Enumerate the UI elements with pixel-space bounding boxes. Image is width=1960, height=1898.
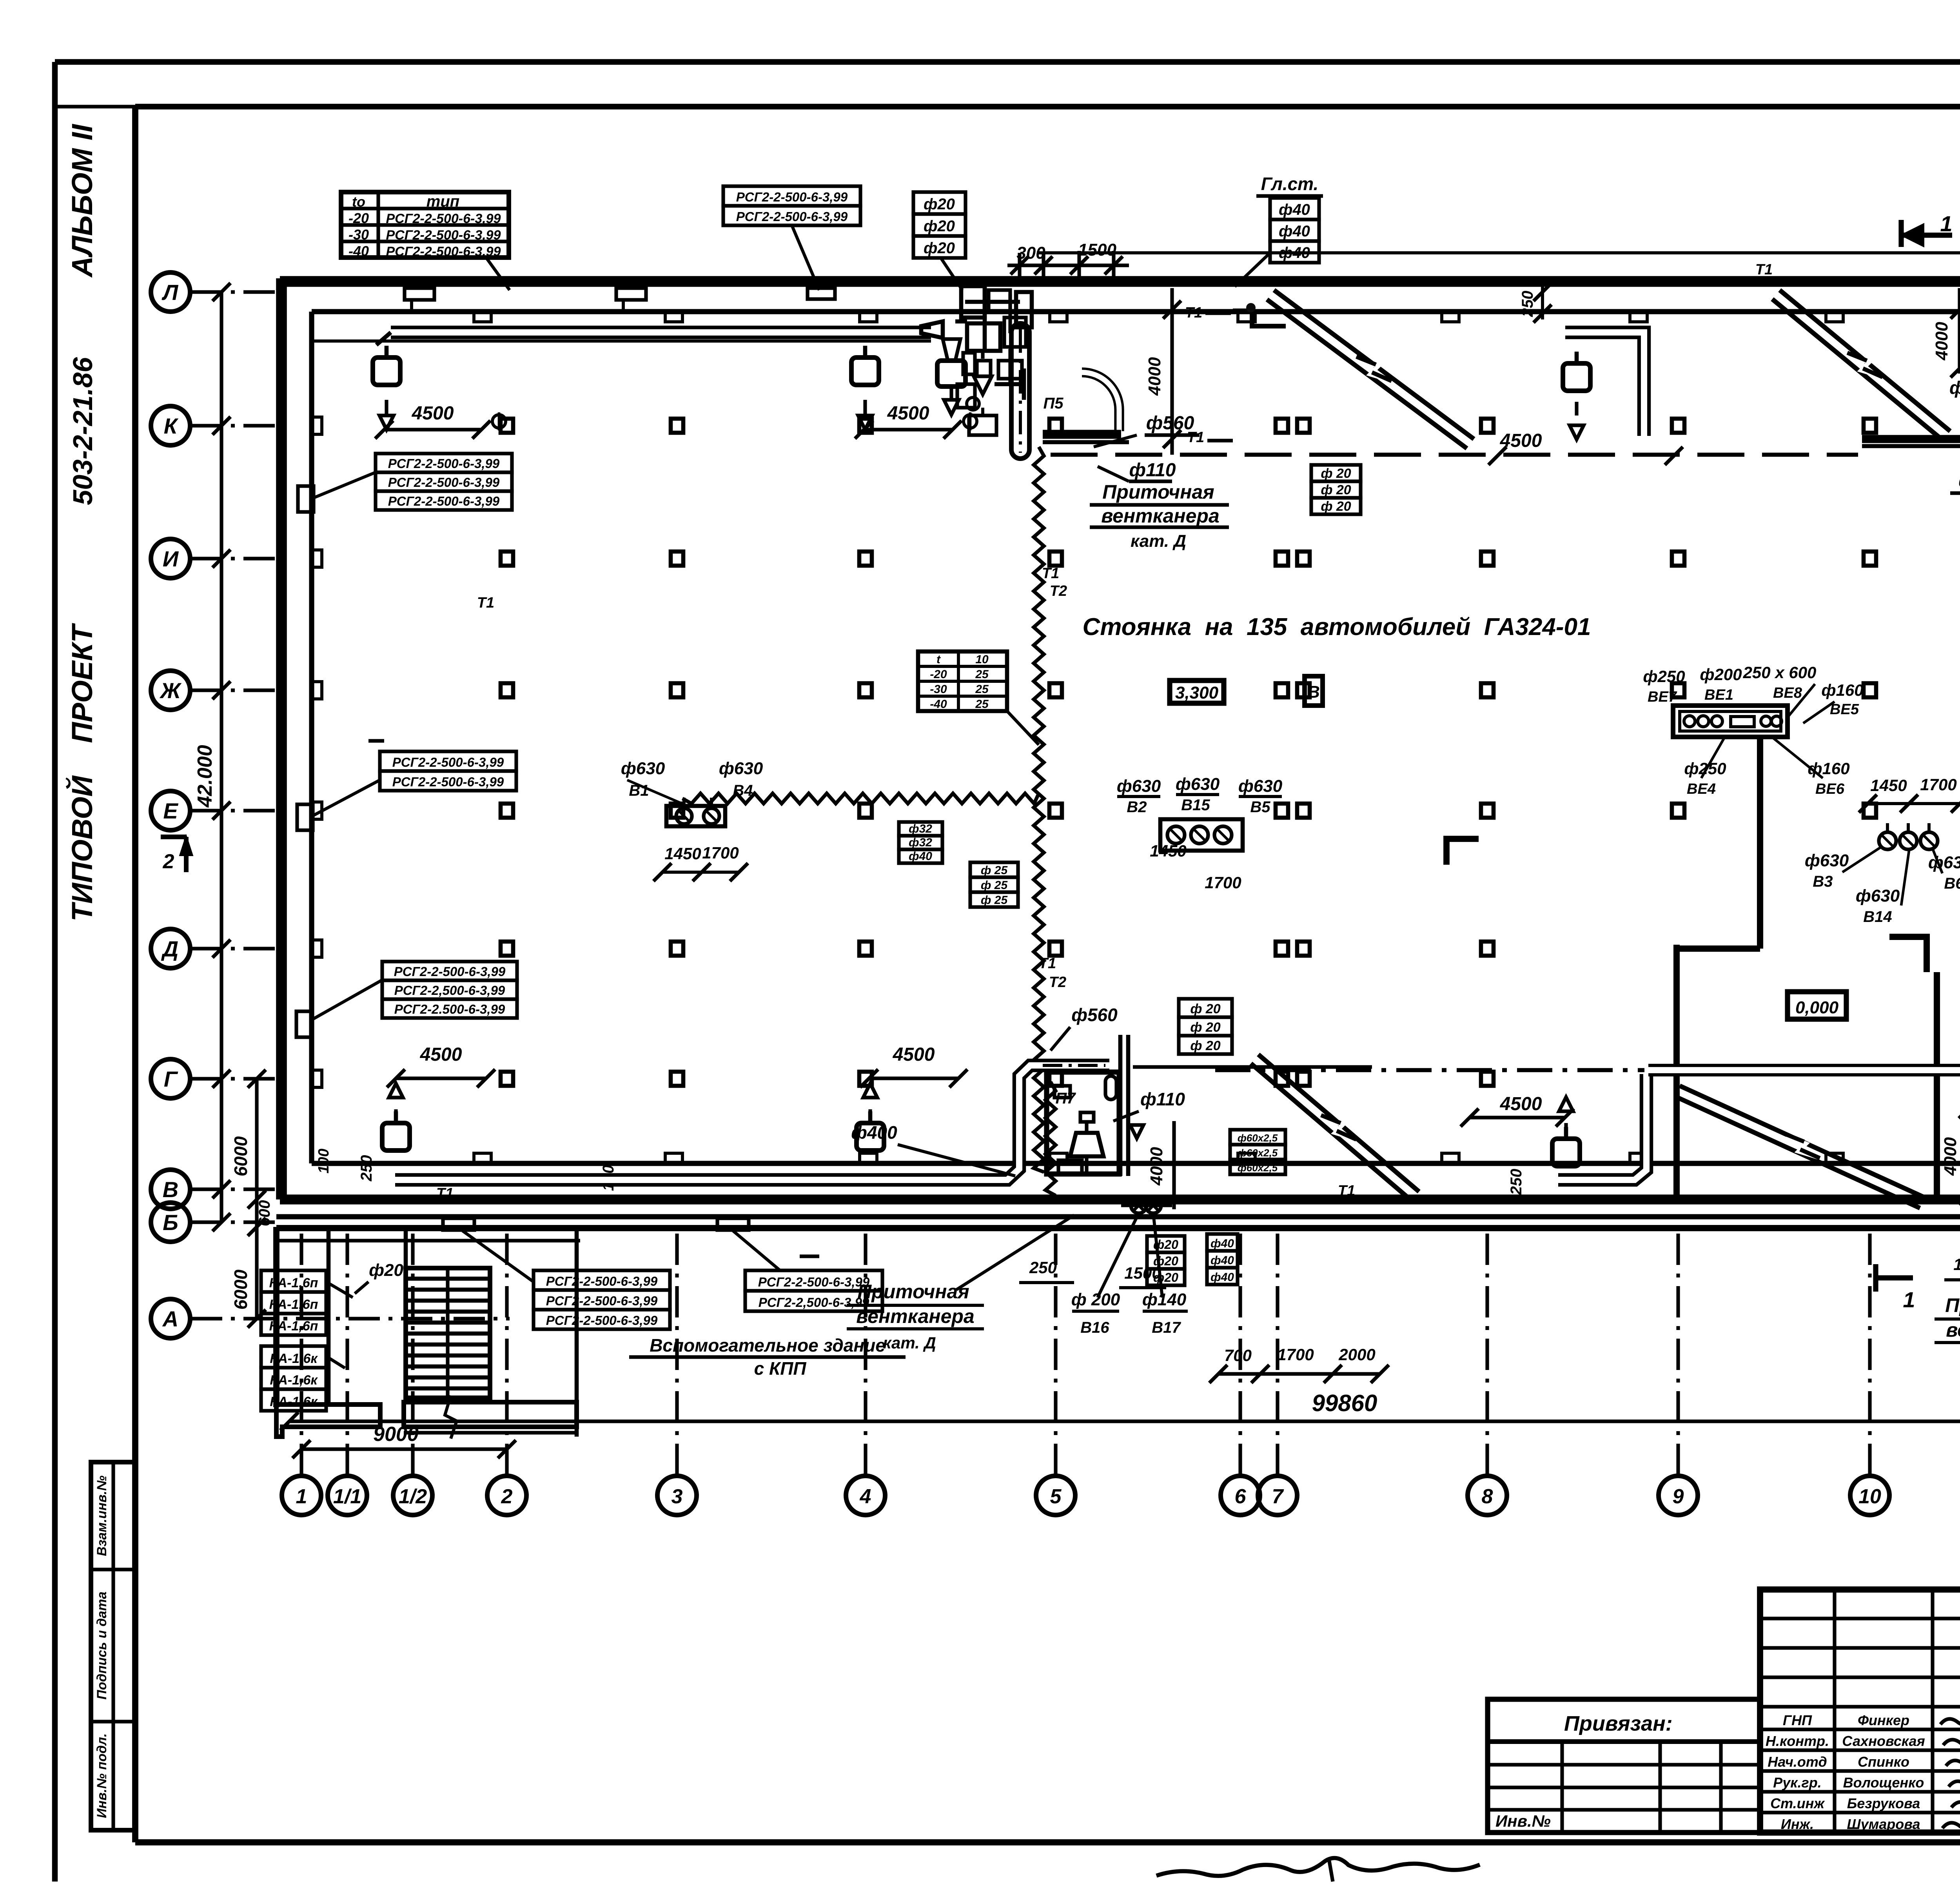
svg-text:РСГ2-2-500-6-3,99: РСГ2-2-500-6-3,99 <box>736 190 848 204</box>
svg-text:4500: 4500 <box>412 403 454 424</box>
svg-text:ГНП: ГНП <box>1783 1712 1812 1728</box>
svg-text:ПРОЕКТ: ПРОЕКТ <box>66 623 98 743</box>
svg-text:ф630: ф630 <box>719 759 763 778</box>
svg-text:3: 3 <box>671 1485 683 1508</box>
svg-text:-30: -30 <box>348 227 369 243</box>
svg-text:Т2: Т2 <box>1049 974 1066 991</box>
svg-text:РСГ2-2-500-6-3,99: РСГ2-2-500-6-3,99 <box>394 964 506 979</box>
svg-text:Гл.ст.: Гл.ст. <box>1261 174 1319 194</box>
svg-text:Инв.№: Инв.№ <box>1495 1812 1551 1830</box>
svg-text:Спинко: Спинко <box>1858 1754 1909 1770</box>
svg-text:Д: Д <box>161 936 178 961</box>
svg-text:ф20: ф20 <box>924 218 955 235</box>
svg-text:РСГ2-2-500-6-3,99: РСГ2-2-500-6-3,99 <box>546 1274 658 1288</box>
svg-text:4500: 4500 <box>1500 1094 1542 1114</box>
svg-text:-40: -40 <box>930 698 947 711</box>
svg-text:Привязан:: Привязан: <box>1564 1712 1673 1735</box>
svg-text:1: 1 <box>1940 211 1952 236</box>
svg-text:ф20: ф20 <box>924 240 955 257</box>
svg-text:ВЕ4: ВЕ4 <box>1687 781 1716 797</box>
svg-text:ф630: ф630 <box>1856 886 1900 905</box>
svg-text:1: 1 <box>296 1485 307 1508</box>
svg-text:Т2: Т2 <box>1050 583 1067 599</box>
svg-text:ф630: ф630 <box>1238 777 1283 796</box>
svg-text:-20: -20 <box>348 210 369 226</box>
svg-text:4500: 4500 <box>420 1044 462 1065</box>
svg-text:Рук.гр.: Рук.гр. <box>1773 1775 1822 1791</box>
svg-text:-30: -30 <box>930 683 947 696</box>
svg-text:1700: 1700 <box>1277 1345 1314 1364</box>
svg-text:В17: В17 <box>1152 1319 1181 1336</box>
svg-text:Т1: Т1 <box>1042 565 1059 582</box>
svg-text:ТИПОВОЙ: ТИПОВОЙ <box>65 775 98 921</box>
svg-text:ф630: ф630 <box>1805 851 1849 870</box>
svg-text:42.000: 42.000 <box>194 745 216 807</box>
svg-text:1/2: 1/2 <box>399 1485 427 1508</box>
svg-text:ф560: ф560 <box>1958 470 1960 491</box>
svg-text:РСГ2-2-500-6-3,99: РСГ2-2-500-6-3,99 <box>388 475 500 490</box>
svg-text:ф32: ф32 <box>909 836 932 849</box>
svg-text:Подпись и дата: Подпись и дата <box>94 1591 109 1700</box>
svg-text:ф60х2,5: ф60х2,5 <box>1238 1147 1278 1159</box>
svg-text:ф40: ф40 <box>1210 1271 1234 1284</box>
svg-text:10: 10 <box>1858 1485 1881 1508</box>
svg-text:РСГ2-2-500-6-3,99: РСГ2-2-500-6-3,99 <box>386 211 501 226</box>
svg-text:В4: В4 <box>733 782 753 799</box>
svg-text:2000: 2000 <box>1338 1345 1375 1364</box>
svg-text:ф630: ф630 <box>1117 777 1161 796</box>
svg-text:ВЕ1: ВЕ1 <box>1704 687 1733 703</box>
svg-text:РСГ2-2,500-6-3,99: РСГ2-2,500-6-3,99 <box>394 983 505 998</box>
svg-text:Вспомогательное здание: Вспомогательное здание <box>650 1335 886 1355</box>
svg-text:ф 200: ф 200 <box>1071 1290 1120 1309</box>
svg-text:1700: 1700 <box>702 844 739 862</box>
svg-text:ф200: ф200 <box>1700 665 1742 684</box>
svg-text:ф40: ф40 <box>1279 223 1310 240</box>
svg-text:РСГ2-2.500-6-3,99: РСГ2-2.500-6-3,99 <box>394 1002 505 1016</box>
svg-text:В3: В3 <box>1813 873 1833 890</box>
svg-text:ф110: ф110 <box>1129 460 1176 481</box>
svg-text:4000: 4000 <box>1145 357 1164 396</box>
svg-text:тип: тип <box>426 193 459 210</box>
svg-text:Н.контр.: Н.контр. <box>1766 1733 1829 1749</box>
svg-text:В15: В15 <box>1181 797 1210 814</box>
svg-text:В16: В16 <box>1080 1319 1109 1336</box>
svg-text:ф60х2,5: ф60х2,5 <box>1238 1132 1278 1144</box>
svg-text:3,300: 3,300 <box>1175 683 1219 702</box>
svg-text:Т1: Т1 <box>477 595 494 611</box>
svg-text:1700: 1700 <box>1920 775 1956 794</box>
svg-text:ф160: ф160 <box>1808 759 1849 778</box>
svg-text:10: 10 <box>975 653 989 666</box>
svg-text:8: 8 <box>1482 1485 1493 1508</box>
svg-text:Ст.инж: Ст.инж <box>1770 1795 1825 1811</box>
svg-text:2: 2 <box>501 1485 513 1508</box>
svg-text:4500: 4500 <box>887 403 929 424</box>
svg-text:250: 250 <box>1508 1169 1525 1196</box>
svg-text:ф20: ф20 <box>1153 1270 1178 1285</box>
svg-text:с КПП: с КПП <box>754 1358 807 1379</box>
svg-text:В: В <box>163 1177 178 1202</box>
svg-text:1450: 1450 <box>1870 776 1907 795</box>
svg-text:ВЕ7: ВЕ7 <box>1648 689 1677 705</box>
svg-text:tо: tо <box>352 194 365 210</box>
svg-text:КА-1,6п: КА-1,6п <box>269 1297 318 1312</box>
svg-text:0,000: 0,000 <box>1795 998 1839 1017</box>
svg-text:РСГ2-2-500-6-3,99: РСГ2-2-500-6-3,99 <box>758 1275 870 1289</box>
svg-text:ф560: ф560 <box>1071 1005 1118 1025</box>
svg-text:ф40: ф40 <box>1210 1254 1234 1267</box>
svg-text:РСГ2-2-500-6-3,99: РСГ2-2-500-6-3,99 <box>386 228 501 243</box>
svg-text:ф 20: ф 20 <box>1190 1002 1220 1016</box>
svg-text:Т1: Т1 <box>436 1185 454 1202</box>
svg-text:РСГ2-2-500-6-3,99: РСГ2-2-500-6-3,99 <box>392 755 504 769</box>
svg-text:1500: 1500 <box>1078 240 1116 259</box>
svg-text:вентканера: вентканера <box>856 1305 975 1327</box>
svg-text:В2: В2 <box>1127 798 1147 816</box>
svg-text:1450: 1450 <box>664 844 701 863</box>
svg-text:503-2-21.86: 503-2-21.86 <box>67 357 98 505</box>
svg-text:600: 600 <box>256 1200 273 1227</box>
svg-text:700: 700 <box>1224 1346 1252 1365</box>
svg-text:ф60х2,5: ф60х2,5 <box>1238 1162 1278 1174</box>
svg-text:ф560: ф560 <box>1146 413 1194 434</box>
svg-text:ф 20: ф 20 <box>1321 499 1351 514</box>
svg-text:В14: В14 <box>1863 908 1892 925</box>
svg-text:Приточная: Приточная <box>1945 1294 1960 1316</box>
svg-text:АЛЬБОМ II: АЛЬБОМ II <box>66 124 98 278</box>
svg-text:Т1: Т1 <box>1039 955 1056 972</box>
svg-text:ф 25: ф 25 <box>981 879 1008 892</box>
svg-text:РСГ2-2,500-6-3,99: РСГ2-2,500-6-3,99 <box>759 1295 869 1310</box>
svg-text:ВЕ8: ВЕ8 <box>1773 685 1802 701</box>
svg-text:ф20: ф20 <box>1153 1238 1178 1252</box>
svg-text:В6: В6 <box>1944 875 1960 892</box>
svg-text:Т1: Т1 <box>1755 261 1773 278</box>
svg-text:кат. Д: кат. Д <box>1131 532 1186 551</box>
svg-text:1: 1 <box>1903 1287 1915 1312</box>
svg-text:Сахновская: Сахновская <box>1842 1733 1925 1749</box>
svg-text:Инв.№ подл.: Инв.№ подл. <box>94 1733 109 1818</box>
svg-text:Приточная: Приточная <box>857 1281 969 1303</box>
svg-text:6000: 6000 <box>230 1269 251 1310</box>
svg-text:Т1: Т1 <box>1338 1183 1355 1199</box>
svg-text:КА-1,6к: КА-1,6к <box>270 1373 318 1388</box>
svg-text:25: 25 <box>975 668 989 681</box>
svg-text:Взам.инв.№: Взам.инв.№ <box>94 1475 109 1556</box>
svg-text:6: 6 <box>1235 1485 1247 1508</box>
svg-text:ф40: ф40 <box>1279 244 1310 261</box>
svg-text:ф 20: ф 20 <box>1190 1020 1220 1035</box>
svg-text:вентканера: вентканера <box>1101 505 1220 527</box>
svg-text:250: 250 <box>1029 1258 1057 1277</box>
svg-text:КА-1,6п: КА-1,6п <box>269 1319 318 1334</box>
svg-text:Приточная: Приточная <box>1102 481 1214 503</box>
svg-text:250 х 600: 250 х 600 <box>1743 663 1817 682</box>
svg-text:7: 7 <box>1272 1485 1284 1508</box>
svg-text:1500: 1500 <box>1953 1255 1960 1274</box>
svg-text:Шумарова: Шумарова <box>1847 1816 1920 1832</box>
svg-text:ф160: ф160 <box>1821 681 1863 699</box>
svg-text:1700: 1700 <box>1205 873 1241 892</box>
svg-text:ф20: ф20 <box>924 196 955 213</box>
svg-text:ф630: ф630 <box>1928 853 1960 872</box>
svg-text:ф400: ф400 <box>851 1122 897 1143</box>
svg-text:ф250: ф250 <box>1643 667 1685 686</box>
svg-text:ф110: ф110 <box>1140 1089 1185 1109</box>
svg-text:КА-1,6к: КА-1,6к <box>270 1351 318 1366</box>
svg-text:Финкер: Финкер <box>1858 1712 1909 1728</box>
svg-text:ф40: ф40 <box>1279 201 1310 218</box>
svg-text:А: А <box>162 1306 178 1331</box>
svg-text:РСГ2-2-500-6-3,99: РСГ2-2-500-6-3,99 <box>386 244 501 259</box>
svg-text:ф 20: ф 20 <box>1321 466 1351 481</box>
svg-text:4000: 4000 <box>1941 1137 1960 1176</box>
svg-text:ф 20: ф 20 <box>1190 1038 1220 1053</box>
svg-text:Безрукова: Безрукова <box>1847 1795 1920 1811</box>
svg-text:Г: Г <box>164 1067 178 1091</box>
svg-text:Стоянка на 135 автомобилей: Стоянка на 135 автомобилей ГА324-01 <box>1083 613 1591 641</box>
svg-text:К: К <box>164 414 179 438</box>
svg-text:Б: Б <box>163 1210 178 1235</box>
svg-text:250: 250 <box>358 1155 375 1182</box>
svg-text:25: 25 <box>975 698 989 711</box>
svg-text:ф20: ф20 <box>369 1261 403 1280</box>
svg-text:Волощенко: Волощенко <box>1843 1775 1924 1791</box>
svg-text:В5: В5 <box>1250 798 1270 816</box>
svg-text:25: 25 <box>975 683 989 696</box>
svg-text:РСГ2-2-500-6-3,99: РСГ2-2-500-6-3,99 <box>736 209 848 224</box>
svg-text:9: 9 <box>1673 1485 1684 1508</box>
svg-text:вентканера: вентканера <box>1946 1319 1960 1341</box>
svg-text:ВЕ6: ВЕ6 <box>1815 781 1845 797</box>
svg-text:РСГ2-2-500-6-3,99: РСГ2-2-500-6-3,99 <box>392 775 504 789</box>
svg-text:П5: П5 <box>1043 395 1063 412</box>
svg-text:ф250: ф250 <box>1684 759 1726 778</box>
svg-text:ф 25: ф 25 <box>981 894 1008 907</box>
svg-text:ф32: ф32 <box>909 822 932 835</box>
svg-text:ф110: ф110 <box>1949 377 1960 398</box>
svg-text:ф40: ф40 <box>909 850 932 863</box>
svg-text:Л: Л <box>162 280 179 305</box>
svg-text:ф630: ф630 <box>1176 775 1220 794</box>
svg-text:Е: Е <box>163 798 178 823</box>
svg-text:-20: -20 <box>930 668 947 681</box>
svg-text:2: 2 <box>163 850 174 873</box>
svg-text:99860: 99860 <box>1312 1390 1377 1416</box>
svg-text:1/1: 1/1 <box>333 1485 361 1508</box>
svg-text:4000: 4000 <box>1932 322 1951 361</box>
svg-text:КА-1,6к: КА-1,6к <box>270 1394 318 1409</box>
svg-text:РСГ2-2-500-6-3,99: РСГ2-2-500-6-3,99 <box>546 1313 658 1328</box>
svg-text:РСГ2-2-500-6-3,99: РСГ2-2-500-6-3,99 <box>388 494 500 508</box>
svg-text:И: И <box>163 546 179 571</box>
svg-text:4: 4 <box>860 1485 871 1508</box>
svg-text:РСГ2-2-500-6-3,99: РСГ2-2-500-6-3,99 <box>546 1294 658 1308</box>
svg-text:ф40: ф40 <box>1210 1237 1234 1250</box>
svg-text:кат. Д: кат. Д <box>883 1334 936 1352</box>
svg-text:ф 20: ф 20 <box>1321 483 1351 497</box>
svg-text:4500: 4500 <box>893 1044 935 1065</box>
svg-text:РСГ2-2-500-6-3,99: РСГ2-2-500-6-3,99 <box>388 456 500 471</box>
svg-text:4000: 4000 <box>1147 1147 1166 1186</box>
svg-text:ВЕ5: ВЕ5 <box>1830 701 1859 718</box>
svg-text:В: В <box>1307 682 1320 702</box>
svg-text:5: 5 <box>1050 1485 1062 1508</box>
svg-text:ф140: ф140 <box>1142 1290 1187 1309</box>
svg-text:ф20: ф20 <box>1153 1254 1178 1268</box>
svg-text:ф 25: ф 25 <box>981 864 1008 877</box>
svg-text:Т1: Т1 <box>1185 305 1202 321</box>
svg-text:КА-1,6п: КА-1,6п <box>269 1276 318 1290</box>
svg-text:6000: 6000 <box>230 1136 251 1176</box>
svg-text:Инж.: Инж. <box>1781 1816 1814 1832</box>
svg-text:-40: -40 <box>348 243 369 259</box>
svg-text:Ж: Ж <box>159 678 182 703</box>
svg-text:Нач.отд: Нач.отд <box>1768 1754 1827 1770</box>
svg-text:ф630: ф630 <box>621 759 665 778</box>
